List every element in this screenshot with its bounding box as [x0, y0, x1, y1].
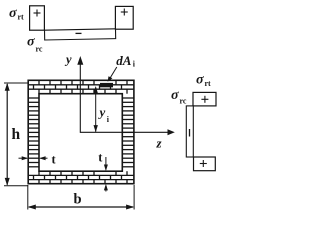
b dimension: extension lines — [27, 185, 29, 210]
top stress diagram: left plus box — [30, 6, 45, 30]
svg-text:t: t — [98, 151, 103, 165]
plus sign top box (right diagram) — [201, 96, 208, 103]
svg-text:h: h — [12, 126, 21, 143]
h dimension: extension lines — [4, 82, 28, 84]
top stress diagram: right plus box — [115, 6, 133, 29]
svg-text:σ: σ — [196, 73, 204, 88]
t thickness left wall: arrows — [19, 157, 27, 159]
svg-text:y: y — [98, 105, 106, 120]
plus sign left box — [34, 10, 41, 17]
y_i dimension line — [95, 88, 97, 132]
hatching: left wall ladder — [28, 98, 39, 167]
outer square of box section — [28, 80, 134, 183]
right stress diagram: bottom plus box — [194, 157, 216, 171]
svg-text:i: i — [133, 60, 136, 69]
inner square of box section — [39, 94, 122, 172]
svg-text:σ: σ — [9, 6, 17, 21]
svg-text:σ: σ — [171, 88, 179, 103]
t thickness bottom wall: arrows — [105, 157, 107, 170]
dA_i element (filled) — [100, 83, 113, 87]
right stress diagram: minus bar (vertical) — [186, 106, 193, 157]
svg-text:dA: dA — [116, 53, 132, 68]
hatching: top wall bricks — [28, 80, 134, 93]
svg-text:t: t — [52, 153, 57, 167]
svg-text:b: b — [74, 192, 82, 208]
plus sign bottom box (right diagram) — [200, 160, 207, 167]
z axis — [80, 131, 170, 133]
hatching: right wall ladder — [122, 98, 134, 167]
svg-text:z: z — [156, 136, 163, 151]
svg-text:rt: rt — [205, 79, 212, 88]
right stress diagram: top plus box — [193, 92, 216, 106]
svg-text:σ: σ — [27, 35, 35, 50]
svg-text:rc: rc — [180, 97, 187, 106]
hatching: bottom wall bricks — [28, 171, 134, 184]
h dimension line — [6, 84, 8, 185]
minus sign in top bar — [76, 32, 82, 34]
svg-text:rt: rt — [18, 13, 25, 22]
svg-text:i: i — [107, 115, 110, 124]
plus sign right box — [121, 9, 128, 16]
top stress diagram: minus bar — [45, 29, 116, 40]
b dimension line — [29, 206, 133, 208]
y axis — [79, 62, 81, 133]
svg-text:rc: rc — [36, 45, 43, 54]
minus sign (vertical) in right bar — [189, 129, 191, 137]
svg-text:y: y — [64, 53, 72, 67]
